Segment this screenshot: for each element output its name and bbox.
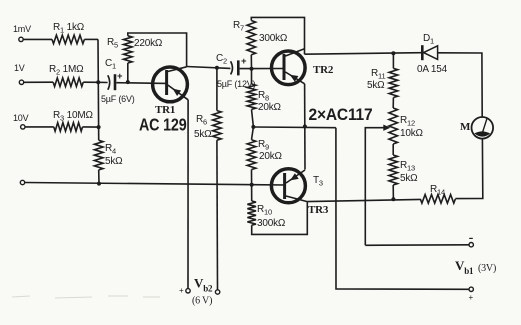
wire R7 top rail [251, 17, 304, 54]
transistor TR2 collector [285, 49, 304, 56]
wire R6 top [216, 68, 218, 111]
wire R11 to R12 [392, 98, 394, 109]
transistor TR2 emitter [285, 72, 304, 84]
svg-text:R8: R8 [258, 90, 269, 103]
wire R14 to meter bottom [455, 139, 482, 199]
node R8 R9 junction [251, 125, 255, 129]
resistor R9 [247, 140, 256, 170]
wire R10 to TR3 collector [252, 202, 308, 235]
wire TR3 collector line [307, 199, 420, 201]
svg-text:TR2: TR2 [313, 64, 334, 76]
node R6 top junction [215, 66, 219, 70]
svg-text:R1 1kΩ: R1 1kΩ [53, 22, 85, 35]
svg-text:5kΩ: 5kΩ [400, 173, 418, 184]
node R4-bus junction [97, 182, 101, 186]
svg-text:10kΩ: 10kΩ [400, 128, 424, 139]
wire R8 top [251, 69, 253, 84]
wire input divider vertical [97, 39, 100, 140]
wire C2 to TR2 base [240, 68, 284, 70]
wire R9 to R10 [251, 170, 253, 202]
wire R5 top rail [128, 33, 187, 67]
svg-text:+: + [241, 56, 247, 67]
wire TR1 emitter down to Vb2 [187, 100, 189, 289]
resistor R8 [247, 84, 256, 109]
svg-text:5kΩ: 5kΩ [105, 156, 123, 167]
svg-text:TR3: TR3 [308, 204, 329, 216]
node R5 base junction [126, 80, 130, 84]
transistor TR2 base bar [283, 54, 286, 80]
svg-text:220kΩ: 220kΩ [134, 38, 163, 49]
wire R9 top [252, 127, 254, 140]
svg-text:R7: R7 [233, 20, 244, 33]
transistor TR3 collector [286, 196, 307, 202]
resistor R3 [54, 123, 83, 132]
svg-text:Vb2: Vb2 [194, 276, 213, 294]
node R3 junction [97, 125, 101, 129]
transistor TR1 base bar [165, 70, 168, 95]
svg-text:R4: R4 [105, 143, 116, 156]
diode D1 triangle [424, 46, 438, 60]
terminal 1mV input [19, 37, 23, 41]
wire R7 bottom [250, 55, 252, 69]
resistor R10 [247, 201, 256, 225]
node emitter line junction [303, 125, 307, 129]
svg-text:R13: R13 [400, 160, 415, 173]
wire bottom bus [25, 183, 286, 186]
transistor TR3 emitter [286, 170, 305, 183]
resistor R5 [124, 36, 133, 63]
wire rail to R11 [392, 53, 394, 68]
wire R12 to R13 [392, 144, 394, 155]
svg-text:R10: R10 [257, 204, 272, 217]
resistor R13 [389, 155, 398, 185]
svg-text:20kΩ: 20kΩ [258, 102, 282, 113]
node R13 bottom junction [391, 197, 395, 201]
svg-text:5kΩ: 5kΩ [367, 80, 385, 91]
resistor R1 [52, 35, 84, 44]
diode D1 cathode bar [421, 45, 424, 60]
svg-text:300kΩ: 300kΩ [259, 33, 288, 44]
transistor TR2 emitter arrow [290, 75, 299, 82]
wire R6 to bus and Vb2 [216, 140, 219, 290]
wire R8 bottom [252, 109, 254, 127]
wiper arrowhead [383, 125, 390, 131]
wire node to C1 [98, 81, 107, 83]
svg-text:Vb1: Vb1 [455, 258, 474, 276]
resistor R6 [213, 111, 222, 141]
svg-text:(3V): (3V) [478, 263, 496, 274]
svg-text:R3 10MΩ: R3 10MΩ [53, 110, 93, 123]
capacitor C2 [231, 61, 233, 74]
node R2-C1 junction [96, 80, 100, 84]
wire collector rail [305, 53, 422, 55]
resistor R7 [247, 21, 256, 55]
svg-text:(6 V): (6 V) [192, 296, 212, 307]
svg-text:+: + [469, 293, 474, 302]
resistor R2 [53, 78, 83, 87]
wire 10V to R3 [25, 126, 54, 128]
resistor R11 [389, 68, 398, 97]
svg-text:+: + [117, 71, 123, 82]
svg-text:T3: T3 [313, 175, 323, 188]
node bus R9R10 junction [250, 183, 254, 187]
meter M circle [472, 117, 494, 139]
svg-text:1V: 1V [14, 63, 25, 73]
transistor TR2 circle [272, 51, 306, 85]
resistor R14 [420, 195, 455, 204]
transistor TR3 emitter arrow [290, 173, 299, 180]
capacitor C1 [108, 75, 110, 90]
svg-text:0A 154: 0A 154 [417, 64, 448, 75]
terminal Vb1 plus [469, 243, 473, 247]
node R7 R8 base junction [250, 67, 254, 71]
wiper arm of R12 [365, 128, 385, 246]
meter M needle [482, 118, 487, 134]
svg-text:2×AC117: 2×AC117 [309, 106, 373, 124]
svg-text:R9: R9 [258, 139, 269, 152]
svg-text:5µF (6V): 5µF (6V) [101, 94, 135, 104]
wire R2 to node [83, 81, 98, 83]
svg-text:M: M [460, 121, 471, 133]
svg-text:20kΩ: 20kΩ [259, 151, 283, 162]
svg-text:+: + [179, 286, 184, 295]
resistor R12 potentiometer [389, 108, 398, 144]
wire C1 to TR1 base [116, 82, 166, 85]
svg-text:R12: R12 [400, 115, 415, 128]
meter M bottom sector [474, 131, 490, 136]
transistor TR1 circle [153, 67, 188, 102]
transistor TR1 emitter arrow [173, 89, 182, 96]
svg-text:R6: R6 [196, 114, 207, 127]
node R11 top junction [391, 51, 395, 55]
wire emitter node to Vb1 minus [336, 128, 469, 290]
svg-text:300kΩ: 300kΩ [257, 218, 286, 229]
wire R5 bottom [127, 63, 129, 82]
terminal Vb2 minus [215, 290, 219, 294]
svg-text:R2 1MΩ: R2 1MΩ [49, 64, 84, 77]
svg-text:10V: 10V [13, 113, 29, 123]
wire TR2 emitter vertical [304, 84, 306, 170]
transistor TR3 circle [271, 169, 305, 203]
wire 1mV to R1 [23, 38, 52, 40]
polarity minus Vb1 [469, 237, 473, 239]
wire R8R9 to emitter node [253, 126, 336, 129]
wire 1V to R2 [24, 81, 53, 83]
svg-text:1mV: 1mV [13, 24, 31, 34]
svg-text:R11: R11 [371, 68, 385, 81]
wire R1 to node [84, 38, 98, 40]
wire R13 bottom [392, 185, 394, 199]
terminal 10V input [21, 125, 25, 129]
wire TR1 collector to C2 [187, 67, 231, 69]
terminal 1V input [19, 80, 23, 84]
terminal Vb1 minus [469, 287, 473, 291]
resistor R4 [94, 140, 103, 170]
transistor TR1 collector [168, 67, 187, 72]
svg-text:C1: C1 [105, 58, 116, 71]
svg-text:R14: R14 [430, 184, 445, 197]
svg-text:D1: D1 [423, 33, 434, 46]
terminal Vb2 plus [186, 289, 190, 293]
wire D1 to meter corner [438, 53, 483, 117]
terminal common input [20, 180, 24, 184]
transistor TR1 emitter [168, 85, 188, 100]
svg-text:C2: C2 [216, 53, 227, 66]
svg-text:AC 129: AC 129 [139, 114, 187, 134]
wire R3 to node [83, 126, 99, 128]
svg-text:5kΩ: 5kΩ [194, 129, 212, 140]
svg-text:R5: R5 [107, 37, 118, 50]
wire R4 to bus [98, 170, 100, 184]
wire wiper to Vb1 plus [365, 244, 469, 247]
transistor TR3 base bar [283, 173, 286, 199]
